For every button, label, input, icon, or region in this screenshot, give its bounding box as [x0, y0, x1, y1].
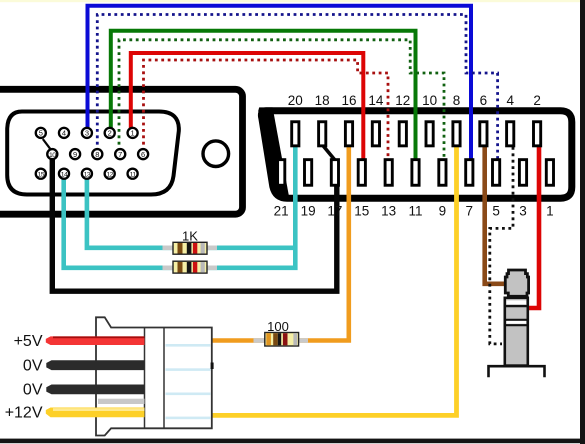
SCART top row pins — [292, 122, 541, 146]
svg-text:13: 13 — [84, 171, 91, 178]
svg-text:1: 1 — [546, 204, 554, 219]
svg-text:13: 13 — [381, 204, 396, 219]
wire red SCART pin2 to pot right — [528, 145, 540, 308]
wire blue solid VGA pin3 to SCART pin7 — [88, 6, 472, 161]
vga pin 7 — [115, 149, 125, 159]
svg-text:2: 2 — [533, 93, 541, 108]
scart pin 8 — [453, 122, 460, 146]
svg-text:1K: 1K — [182, 229, 198, 244]
scart pin 21 — [278, 160, 285, 186]
svg-text:0V: 0V — [23, 357, 43, 374]
resistor R3 100 ohm — [254, 333, 309, 347]
svg-text:4: 4 — [62, 129, 66, 138]
svg-text:20: 20 — [288, 93, 303, 108]
resistor R1 1K upper — [163, 242, 218, 254]
svg-text:15: 15 — [354, 204, 369, 219]
SCART top pin numbers — [288, 93, 541, 108]
vga pin 2 — [105, 128, 115, 138]
jumper VGA pin5 to pin10 — [43, 139, 50, 149]
svg-text:5: 5 — [39, 129, 43, 138]
scart pin 6 — [480, 122, 487, 146]
vga pin 9 — [70, 149, 80, 159]
vga pin 1 — [128, 128, 138, 138]
svg-text:6: 6 — [480, 93, 488, 108]
svg-text:14: 14 — [61, 171, 68, 178]
svg-text:8: 8 — [95, 150, 99, 159]
vga pin 15 — [36, 169, 46, 179]
molex black 0V wire lower — [46, 385, 144, 395]
scart pin 20 — [292, 122, 299, 146]
vga pin 14 — [59, 169, 69, 179]
svg-text:9: 9 — [73, 150, 77, 159]
svg-text:15: 15 — [38, 171, 45, 178]
molex slot line 3 — [166, 393, 211, 396]
vga pin 3 — [82, 128, 92, 138]
SCART bottom row pins — [278, 160, 554, 186]
molex red +5V wire — [46, 336, 145, 345]
svg-text:19: 19 — [301, 204, 316, 219]
frame: bottom black line — [0, 439, 585, 444]
scart pin 18 — [319, 122, 326, 146]
svg-text:0V: 0V — [23, 382, 43, 399]
vga pin 10 — [47, 149, 57, 159]
svg-text:11: 11 — [130, 171, 137, 178]
wire orange molex +5V via 100 ohm to SCART pin16 — [212, 145, 349, 341]
scart pin 9 — [439, 160, 446, 186]
svg-text:3: 3 — [519, 204, 527, 219]
svg-text:+12V: +12V — [5, 405, 43, 422]
scart pin 14 — [372, 122, 379, 146]
scart pin 17 — [331, 160, 338, 186]
svg-text:11: 11 — [408, 204, 422, 219]
svg-text:+5V: +5V — [14, 333, 43, 350]
jumper SCART pin18 to pin17 — [323, 146, 334, 160]
molex black 0V wire upper — [46, 360, 144, 370]
svg-text:18: 18 — [315, 93, 330, 108]
molex slot line 2 — [166, 368, 211, 371]
svg-text:6: 6 — [141, 150, 145, 159]
wire black ground VGA pin10 to SCART pin17 — [52, 154, 337, 291]
scart pin 12 — [399, 122, 406, 146]
molex yellow +12V wire — [46, 408, 145, 418]
scart pin 15 — [358, 160, 365, 186]
svg-text:4: 4 — [506, 93, 514, 108]
scart pin 7 — [466, 160, 473, 186]
scart pin 13 — [385, 160, 392, 186]
frame: right black bar — [580, 0, 585, 444]
svg-text:10: 10 — [422, 93, 437, 108]
molex gray wire — [98, 399, 145, 404]
scart pin 10 — [426, 122, 433, 146]
svg-text:12: 12 — [395, 93, 410, 108]
wire red dotted VGA pin6 to SCART pin13 — [144, 60, 389, 159]
frame: top pale line — [0, 0, 585, 2]
scart pin 19 — [305, 160, 312, 186]
svg-text:21: 21 — [274, 204, 289, 219]
wire cyan VGA pin13 upper branch to SCART pin20 — [87, 170, 295, 248]
vga pin 11 — [128, 169, 138, 179]
svg-text:8: 8 — [453, 93, 461, 108]
svg-text:9: 9 — [439, 204, 447, 219]
wire cyan VGA pin14 lower branch to node — [64, 145, 296, 268]
vga pin 5 — [36, 128, 46, 138]
vga pin 13 — [82, 169, 92, 179]
scart pin 3 — [519, 160, 526, 186]
SCART connector body — [258, 107, 572, 198]
svg-text:12: 12 — [106, 171, 113, 178]
scart pin 11 — [412, 160, 419, 186]
VGA pins row1 pins 5,4,3,2,1 — [36, 128, 148, 179]
svg-text:7: 7 — [466, 204, 474, 219]
svg-text:5: 5 — [492, 204, 500, 219]
vga pin 8 — [92, 149, 102, 159]
wire green dotted VGA pin7 to SCART pin9 — [119, 40, 444, 159]
svg-text:17: 17 — [327, 204, 342, 219]
scart pin 2 — [534, 122, 541, 146]
resistor R2 1K lower — [163, 261, 218, 273]
molex slot line 4 — [166, 417, 211, 420]
vga pin 12 — [105, 169, 115, 179]
molex power connector — [96, 317, 214, 435]
svg-text:100: 100 — [267, 319, 289, 334]
molex slot line 1 — [166, 344, 211, 347]
svg-text:2: 2 — [108, 129, 112, 138]
SCART bottom pin numbers — [274, 204, 554, 219]
wire black dotted SCART pin4 to pot left — [490, 147, 513, 344]
wire green solid VGA pin2 to SCART pin11 — [111, 31, 416, 161]
svg-text:1: 1 — [131, 129, 135, 138]
scart pin 4 — [507, 122, 514, 146]
wire blue dotted VGA pin8 to SCART pin5 — [97, 15, 497, 159]
vga pin 4 — [59, 128, 69, 138]
potentiometer body — [489, 270, 545, 377]
svg-text:7: 7 — [118, 150, 122, 159]
svg-text:10: 10 — [49, 152, 56, 159]
wire yellow molex +12V to SCART pin8 — [212, 145, 457, 415]
VGA connector body — [0, 89, 243, 214]
wire brown SCART pin6 to pot top — [485, 145, 505, 284]
scart pin 5 — [493, 160, 500, 186]
svg-text:16: 16 — [341, 93, 356, 108]
svg-text:14: 14 — [368, 93, 384, 108]
wire red solid VGA pin1 to SCART pin15 — [131, 53, 363, 161]
scart pin 16 — [345, 122, 352, 146]
vga pin 6 — [138, 149, 148, 159]
svg-text:3: 3 — [85, 129, 89, 138]
scart pin 1 — [546, 160, 553, 186]
